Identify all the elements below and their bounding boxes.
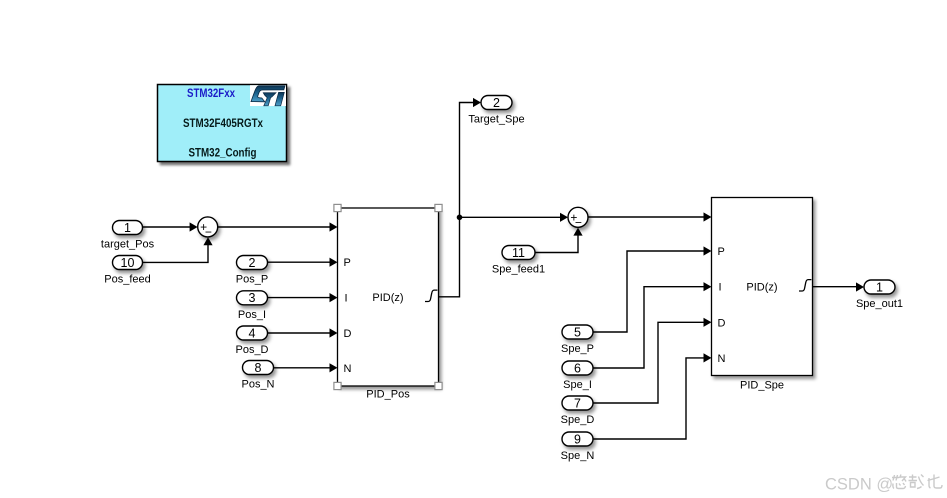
svg-text:4: 4 — [249, 326, 256, 340]
wire port6 to I of PID_Spe — [593, 282, 712, 368]
inport 11 Spe_feed1 — [492, 246, 545, 276]
svg-text:8: 8 — [255, 361, 262, 375]
wire port1 to sum1 — [143, 222, 198, 231]
svg-text:Spe_D: Spe_D — [561, 414, 595, 426]
inport 2 Pos_P — [236, 256, 268, 286]
svg-text:Spe_N: Spe_N — [561, 450, 595, 462]
outport 1 Spe_out1 — [856, 280, 903, 310]
svg-text:3: 3 — [249, 291, 256, 305]
svg-text:P: P — [718, 246, 725, 258]
STM32 config block STM32_Config — [158, 85, 287, 162]
svg-text:2: 2 — [493, 96, 500, 110]
svg-text:Pos_D: Pos_D — [235, 344, 268, 356]
svg-text:9: 9 — [574, 432, 581, 446]
watermark CSDN @悠哉也 — [825, 475, 942, 494]
wire port5 to P of PID_Spe — [593, 246, 712, 332]
wire port11 up to sum2 minus input — [535, 228, 583, 253]
PID controller block PID_Pos — [338, 208, 439, 401]
svg-text:6: 6 — [574, 361, 581, 375]
PID controller block PID_Spe — [712, 198, 813, 392]
selection handles PID_Pos — [334, 204, 442, 389]
svg-text:Target_Spe: Target_Spe — [468, 114, 524, 126]
svg-text:Spe_P: Spe_P — [561, 343, 594, 355]
wire port3 to I — [268, 293, 338, 302]
svg-text:D: D — [718, 317, 726, 329]
inport 8 Pos_N — [241, 361, 274, 391]
outport 2 Target_Spe — [468, 96, 524, 126]
wire sum2 to PID_Spe input — [588, 212, 712, 221]
svg-text:−: − — [575, 216, 582, 230]
wire port2 to P — [268, 258, 338, 267]
wire PID_Spe output to Spe_out1 — [813, 282, 865, 291]
wire sum1 to PID_Pos input — [218, 222, 338, 231]
svg-text:2: 2 — [249, 256, 256, 270]
svg-text:PID(z): PID(z) — [372, 292, 403, 304]
inport 6 Spe_I — [562, 361, 593, 391]
junction node — [457, 215, 463, 221]
svg-text:PID(z): PID(z) — [746, 282, 777, 294]
inport 10 Pos_feed — [104, 256, 150, 286]
svg-text:1: 1 — [876, 280, 883, 294]
svg-text:7: 7 — [574, 396, 581, 410]
inport 9 Spe_N — [561, 432, 595, 462]
svg-text:STM32Fxx: STM32Fxx — [187, 86, 235, 100]
svg-text:CSDN @: CSDN @ — [825, 476, 893, 494]
svg-text:PID_Spe: PID_Spe — [740, 380, 784, 392]
svg-text:target_Pos: target_Pos — [101, 238, 155, 250]
svg-text:STM32_Config: STM32_Config — [189, 146, 257, 160]
svg-text:1: 1 — [124, 221, 131, 235]
sum block sum2 — [568, 207, 588, 229]
svg-text:I: I — [345, 293, 348, 305]
inport 4 Pos_D — [235, 326, 268, 356]
wire port8 to N — [274, 363, 338, 372]
svg-text:N: N — [718, 353, 726, 365]
wire junction to sum2 — [460, 213, 569, 222]
inport 3 Pos_I — [237, 291, 268, 321]
svg-text:PID_Pos: PID_Pos — [366, 389, 410, 401]
svg-text:Spe_I: Spe_I — [563, 379, 592, 391]
wire port4 to D — [268, 328, 338, 337]
inport 1 target_Pos — [101, 221, 155, 251]
svg-text:I: I — [719, 282, 722, 294]
svg-text:Pos_feed: Pos_feed — [104, 273, 150, 285]
svg-text:−: − — [205, 225, 212, 239]
svg-text:Pos_P: Pos_P — [236, 274, 268, 286]
svg-text:10: 10 — [121, 256, 135, 270]
sum block sum1 — [198, 217, 218, 239]
wire PID_Pos output up to Target_Spe and branch — [439, 98, 482, 297]
svg-text:D: D — [344, 328, 352, 340]
svg-text:P: P — [344, 257, 351, 269]
svg-text:N: N — [344, 363, 352, 375]
svg-text:11: 11 — [512, 246, 525, 260]
svg-text:Spe_feed1: Spe_feed1 — [492, 264, 545, 276]
svg-text:STM32F405RGTx: STM32F405RGTx — [183, 116, 263, 130]
wire port10 up to sum1 minus input — [143, 237, 213, 262]
wire port9 to N of PID_Spe — [593, 353, 712, 439]
svg-text:Pos_N: Pos_N — [241, 379, 274, 391]
inport 7 Spe_D — [561, 396, 595, 426]
svg-text:Pos_I: Pos_I — [238, 309, 266, 321]
svg-text:Spe_out1: Spe_out1 — [856, 298, 903, 310]
ST logo — [251, 86, 285, 106]
inport 5 Spe_P — [561, 325, 594, 355]
svg-text:5: 5 — [574, 325, 581, 339]
wire port7 to D of PID_Spe — [593, 318, 712, 403]
